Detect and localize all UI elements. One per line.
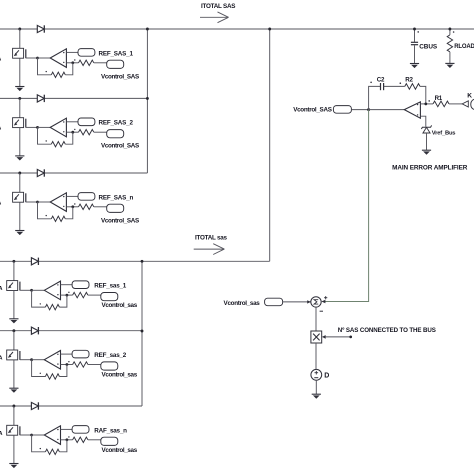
node Vcontrol_SAS tag main — [333, 106, 351, 114]
wire zener to ground — [426, 133, 428, 150]
op-amp U2 — [50, 118, 66, 137]
transistor Q2 MOSFET — [13, 118, 26, 128]
wire feedback right block 5 — [59, 365, 67, 377]
wire op-amp output block 3 — [38, 201, 51, 203]
svg-text:REF_SAS_2: REF_SAS_2 — [99, 120, 134, 127]
node Vcontrol_sas tag lower — [265, 298, 283, 306]
resistor feedback block 1 — [51, 72, 65, 77]
diode D5 — [31, 327, 38, 334]
transistor Q5 MOSFET — [7, 350, 20, 360]
ground block 5 — [9, 388, 18, 393]
wire trunk bottom sas — [141, 261, 143, 406]
node riser bus1 junction — [268, 28, 271, 31]
svg-text:R1: R1 — [435, 95, 443, 102]
op-amp U6 input marks — [57, 429, 58, 430]
marker dot CBUS — [417, 31, 419, 33]
node feedback junction block 4 — [66, 294, 69, 297]
wire trunk top SAS — [146, 29, 148, 173]
wire bus segment block 1 — [0, 28, 474, 30]
wire noninverting input block 6 — [61, 439, 73, 441]
svg-text:Vcontrol_sas: Vcontrol_sas — [224, 300, 261, 307]
wire multiplier to source D — [315, 343, 317, 369]
wire to Vcontrol tag block 6 — [88, 439, 101, 441]
svg-text:D: D — [324, 373, 329, 380]
marker dot RLOAD — [453, 31, 455, 33]
resistor series block 5 — [73, 362, 88, 367]
op-amp U7 input marks — [417, 104, 418, 105]
wire feedback left block 1 — [38, 58, 52, 75]
wire riser ITOTAL sas to bus — [269, 29, 271, 261]
wire gate block 5 — [20, 359, 32, 361]
capacitor CBUS — [411, 41, 418, 43]
wire inverting input block 2 — [66, 121, 78, 123]
node N constant — [349, 336, 352, 339]
wire drain block 5 — [13, 331, 15, 350]
node feedback junction block 1 — [71, 61, 74, 64]
wire drain block 1 — [19, 29, 21, 48]
marker dot C2 — [370, 82, 372, 84]
wire gate block 6 — [20, 434, 32, 436]
wire R1 to K — [449, 103, 462, 105]
node inverting junction — [424, 103, 427, 106]
node drain junction block 5 — [12, 329, 15, 332]
wire to Vcontrol tag block 1 — [94, 62, 107, 64]
node REF tag block 2 — [78, 118, 95, 126]
wire feedback up — [369, 86, 381, 109]
multiplier block — [311, 331, 322, 343]
ground block 2 — [15, 156, 24, 161]
op-amp U4 — [44, 281, 60, 300]
svg-text:R2: R2 — [405, 76, 413, 83]
svg-text:K: K — [467, 93, 472, 100]
arrow ITOTAL SAS — [200, 16, 229, 18]
wire gate block 1 — [26, 57, 38, 59]
wire op-amp output block 4 — [32, 289, 45, 291]
wire op-amp output block 2 — [38, 126, 51, 128]
wire feedback left block 5 — [32, 360, 46, 377]
node feedback junction block 3 — [71, 205, 74, 208]
svg-text:MAIN ERROR AMPLIFIER: MAIN ERROR AMPLIFIER — [392, 164, 468, 171]
ground D — [312, 394, 321, 399]
wire gate block 2 — [26, 126, 38, 128]
svg-text:Vcontrol_sas: Vcontrol_sas — [102, 447, 138, 454]
wire op-amp output block 1 — [38, 57, 51, 59]
diode D6 — [31, 402, 38, 409]
resistor R2 — [405, 84, 420, 90]
wire bus segment block 5 — [0, 330, 142, 332]
wire gate block 4 — [20, 289, 32, 291]
op-amp U6 — [44, 426, 60, 445]
svg-text:A: A — [0, 356, 3, 362]
wire noninverting input block 5 — [61, 364, 73, 366]
wire drain block 3 — [19, 173, 21, 192]
node Vcontrol tag block 1 — [107, 60, 124, 68]
svg-text:REF_SAS_1: REF_SAS_1 — [99, 50, 134, 57]
op-amp U5 input marks — [57, 354, 58, 355]
node trunk bus5 junction — [141, 330, 144, 333]
node drain junction block 3 — [18, 172, 21, 175]
wire inverting input block 4 — [61, 284, 73, 286]
ground RLOAD — [445, 63, 454, 68]
node drain junction block 4 — [12, 260, 15, 263]
node Vcontrol tag block 3 — [107, 204, 124, 212]
op-amp U7 main error amplifier — [404, 102, 420, 118]
node gate junction block 1 — [36, 57, 39, 60]
wire noninverting input block 1 — [66, 62, 78, 64]
svg-text:Nº SAS CONNECTED TO THE BUS: Nº SAS CONNECTED TO THE BUS — [338, 327, 436, 334]
wire source block 4 — [13, 291, 15, 319]
wire inverting input main — [420, 103, 433, 105]
node error amp output junction — [367, 108, 370, 111]
node trunk bus4 junction — [141, 260, 144, 263]
arrowhead into multiplier — [322, 335, 326, 339]
diode D2 — [37, 95, 44, 102]
resistor feedback block 6 — [45, 449, 59, 454]
node gate junction block 6 — [30, 434, 33, 437]
marker dots block 1 — [46, 71, 47, 72]
op-amp U4 input marks — [57, 284, 58, 285]
svg-text:Vcontrol_SAS: Vcontrol_SAS — [293, 107, 331, 114]
resistor feedback block 5 — [45, 374, 59, 379]
node RLOAD bus junction — [448, 28, 451, 31]
wire to Vcontrol tag block 3 — [94, 206, 107, 208]
svg-text:A: A — [0, 431, 3, 437]
node gate junction block 3 — [36, 201, 39, 204]
wire feedback left block 4 — [32, 290, 46, 307]
wire summer to multiplier — [315, 307, 317, 331]
wire R2 to junction — [420, 86, 426, 104]
node gate junction block 5 — [30, 358, 33, 361]
resistor RLOAD — [447, 35, 452, 52]
op-amp U1 input marks — [63, 52, 64, 53]
svg-text:Vref_Bus: Vref_Bus — [432, 131, 456, 137]
summer sigma block — [311, 297, 321, 307]
svg-text:CBUS: CBUS — [419, 44, 438, 51]
wire source block 2 — [19, 128, 21, 156]
node feedback junction block 6 — [66, 438, 69, 441]
svg-text:RLOAD: RLOAD — [454, 44, 474, 50]
wire op-amp output block 5 — [32, 359, 45, 361]
marker dot R2 — [400, 82, 402, 84]
wire bus segment block 6 — [0, 405, 142, 407]
node K tag — [471, 99, 474, 109]
node REF tag block 4 — [72, 281, 89, 289]
wire feedback left block 6 — [32, 435, 46, 452]
wire to Vcontrol tag block 5 — [88, 364, 101, 366]
wire bus segment block 2 — [0, 97, 147, 99]
wire feedback right block 6 — [59, 440, 67, 452]
ground Vref — [422, 150, 431, 155]
wire RLOAD top — [449, 29, 451, 35]
marker dot R1 — [428, 100, 430, 102]
arrowhead into summer left — [307, 300, 311, 303]
marker dots block 3 — [46, 215, 47, 216]
wire drain block 4 — [13, 261, 15, 280]
wire source block 3 — [19, 202, 21, 230]
wire CBUS top — [414, 29, 416, 42]
node gate junction block 4 — [30, 289, 33, 292]
wire feedback right block 3 — [65, 207, 73, 219]
svg-text:C2: C2 — [377, 76, 385, 83]
svg-text:ITOTAL SAS: ITOTAL SAS — [201, 3, 235, 10]
svg-text:REF_sas_1: REF_sas_1 — [94, 283, 127, 290]
node drain junction block 1 — [18, 28, 21, 31]
wire bus segment block 3 — [0, 172, 147, 174]
node CBUS bus junction — [413, 28, 416, 31]
svg-text:Vcontrol_sas: Vcontrol_sas — [102, 302, 138, 309]
op-amp U5 — [44, 351, 60, 370]
wire output to op-amp — [369, 109, 405, 111]
wire inverting input block 5 — [61, 353, 73, 355]
resistor series block 6 — [73, 437, 88, 442]
svg-text:RAF_sas_n: RAF_sas_n — [94, 427, 127, 434]
svg-text:ITOTAL sas: ITOTAL sas — [195, 235, 228, 242]
wire source block 1 — [19, 58, 21, 86]
resistor series block 2 — [79, 130, 94, 135]
diode zener Vref_Bus — [421, 125, 431, 129]
wire noninverting input block 4 — [61, 294, 73, 296]
svg-text:REF_SAS_n: REF_SAS_n — [99, 194, 134, 201]
marker dots block 4 — [40, 303, 41, 304]
transistor Q1 MOSFET — [13, 48, 26, 58]
resistor R1 — [433, 101, 449, 107]
wire feedback left block 2 — [38, 127, 52, 144]
arrowhead into summer right — [321, 300, 325, 304]
ground block 6 — [9, 464, 18, 469]
node REF tag block 1 — [78, 49, 95, 57]
op-amp U3 — [50, 193, 66, 212]
capacitor C2 — [380, 83, 382, 90]
wire source block 6 — [13, 435, 15, 463]
wire feedback right block 2 — [65, 132, 73, 144]
wire bus segment block 4 — [0, 260, 270, 262]
transistor Q4 MOSFET — [7, 281, 20, 291]
wire op-amp output block 6 — [32, 434, 45, 436]
node trunk bus2 junction — [146, 97, 149, 100]
wire noninverting input block 3 — [66, 206, 78, 208]
wire source block 5 — [13, 360, 15, 388]
node feedback junction block 5 — [66, 363, 69, 366]
svg-text:Vcontrol_sas: Vcontrol_sas — [102, 372, 138, 379]
transistor Q6 MOSFET — [7, 425, 20, 435]
label minus summer — [320, 310, 323, 312]
wire gate block 3 — [26, 201, 38, 203]
wire noninverting to zener — [420, 116, 425, 127]
node feedback junction block 2 — [71, 131, 74, 134]
ground block 3 — [15, 231, 24, 236]
wire D to ground — [315, 380, 317, 394]
marker dots block 6 — [40, 448, 41, 449]
label plus summer — [324, 297, 327, 299]
op-amp U2 input marks — [63, 121, 64, 122]
source D — [311, 369, 322, 380]
svg-text:Vcontrol_SAS: Vcontrol_SAS — [101, 217, 139, 224]
marker dots block 2 — [46, 140, 47, 141]
node trunk bus1 junction — [146, 28, 149, 31]
wire inverting input block 3 — [66, 195, 78, 197]
wire CBUS bottom — [414, 45, 416, 63]
node REF tag block 3 — [78, 193, 95, 201]
wire feedback right block 1 — [65, 63, 73, 75]
ground block 1 — [15, 87, 24, 92]
resistor series block 3 — [79, 204, 94, 209]
wire C2 to R2 — [384, 85, 405, 87]
node Vcontrol tag block 2 — [107, 130, 124, 138]
wire tag to junction — [351, 109, 368, 111]
wire to Vcontrol tag block 2 — [94, 131, 107, 133]
svg-text:A: A — [0, 286, 3, 292]
ground block 4 — [9, 319, 18, 324]
wire N input — [326, 336, 351, 338]
resistor feedback block 2 — [51, 142, 65, 147]
resistor series block 4 — [73, 292, 88, 297]
wire feedback left block 3 — [38, 202, 52, 219]
svg-text:Vcontrol_SAS: Vcontrol_SAS — [101, 143, 139, 150]
node REF tag block 6 — [72, 426, 89, 434]
resistor feedback block 3 — [51, 216, 65, 221]
node drain junction block 2 — [18, 97, 21, 100]
op-amp U3 input marks — [63, 196, 64, 197]
diode D4 — [31, 258, 38, 265]
wire drain block 6 — [13, 406, 15, 425]
wire RLOAD bottom — [449, 52, 451, 63]
op-amp U1 — [50, 49, 66, 68]
diode D3 — [37, 169, 44, 176]
marker dots block 5 — [40, 373, 41, 374]
node Vcontrol tag block 5 — [101, 362, 118, 370]
wire inverting input block 6 — [61, 428, 73, 430]
svg-text:Vcontrol_SAS: Vcontrol_SAS — [101, 73, 139, 80]
wire to Vcontrol tag block 4 — [88, 294, 101, 296]
wire inverting input block 1 — [66, 51, 78, 53]
wire noninverting input block 2 — [66, 131, 78, 133]
ground CBUS — [410, 64, 419, 69]
wire tag to summer — [283, 301, 311, 303]
transistor Q3 MOSFET — [13, 192, 26, 202]
diode D1 — [37, 25, 44, 32]
resistor feedback block 4 — [45, 304, 59, 309]
wire green to summer — [322, 110, 368, 302]
arrow ITOTAL sas — [194, 248, 225, 250]
node drain junction block 6 — [12, 405, 15, 408]
node gate junction block 2 — [36, 126, 39, 129]
arrow link K — [462, 101, 468, 107]
node REF tag block 5 — [72, 350, 89, 358]
wire feedback right block 4 — [59, 295, 67, 307]
resistor series block 1 — [79, 60, 94, 65]
node Vcontrol tag block 6 — [101, 437, 118, 445]
wire drain block 2 — [19, 98, 21, 117]
svg-text:REF_sas_2: REF_sas_2 — [94, 352, 127, 359]
node Vcontrol tag block 4 — [101, 293, 118, 301]
